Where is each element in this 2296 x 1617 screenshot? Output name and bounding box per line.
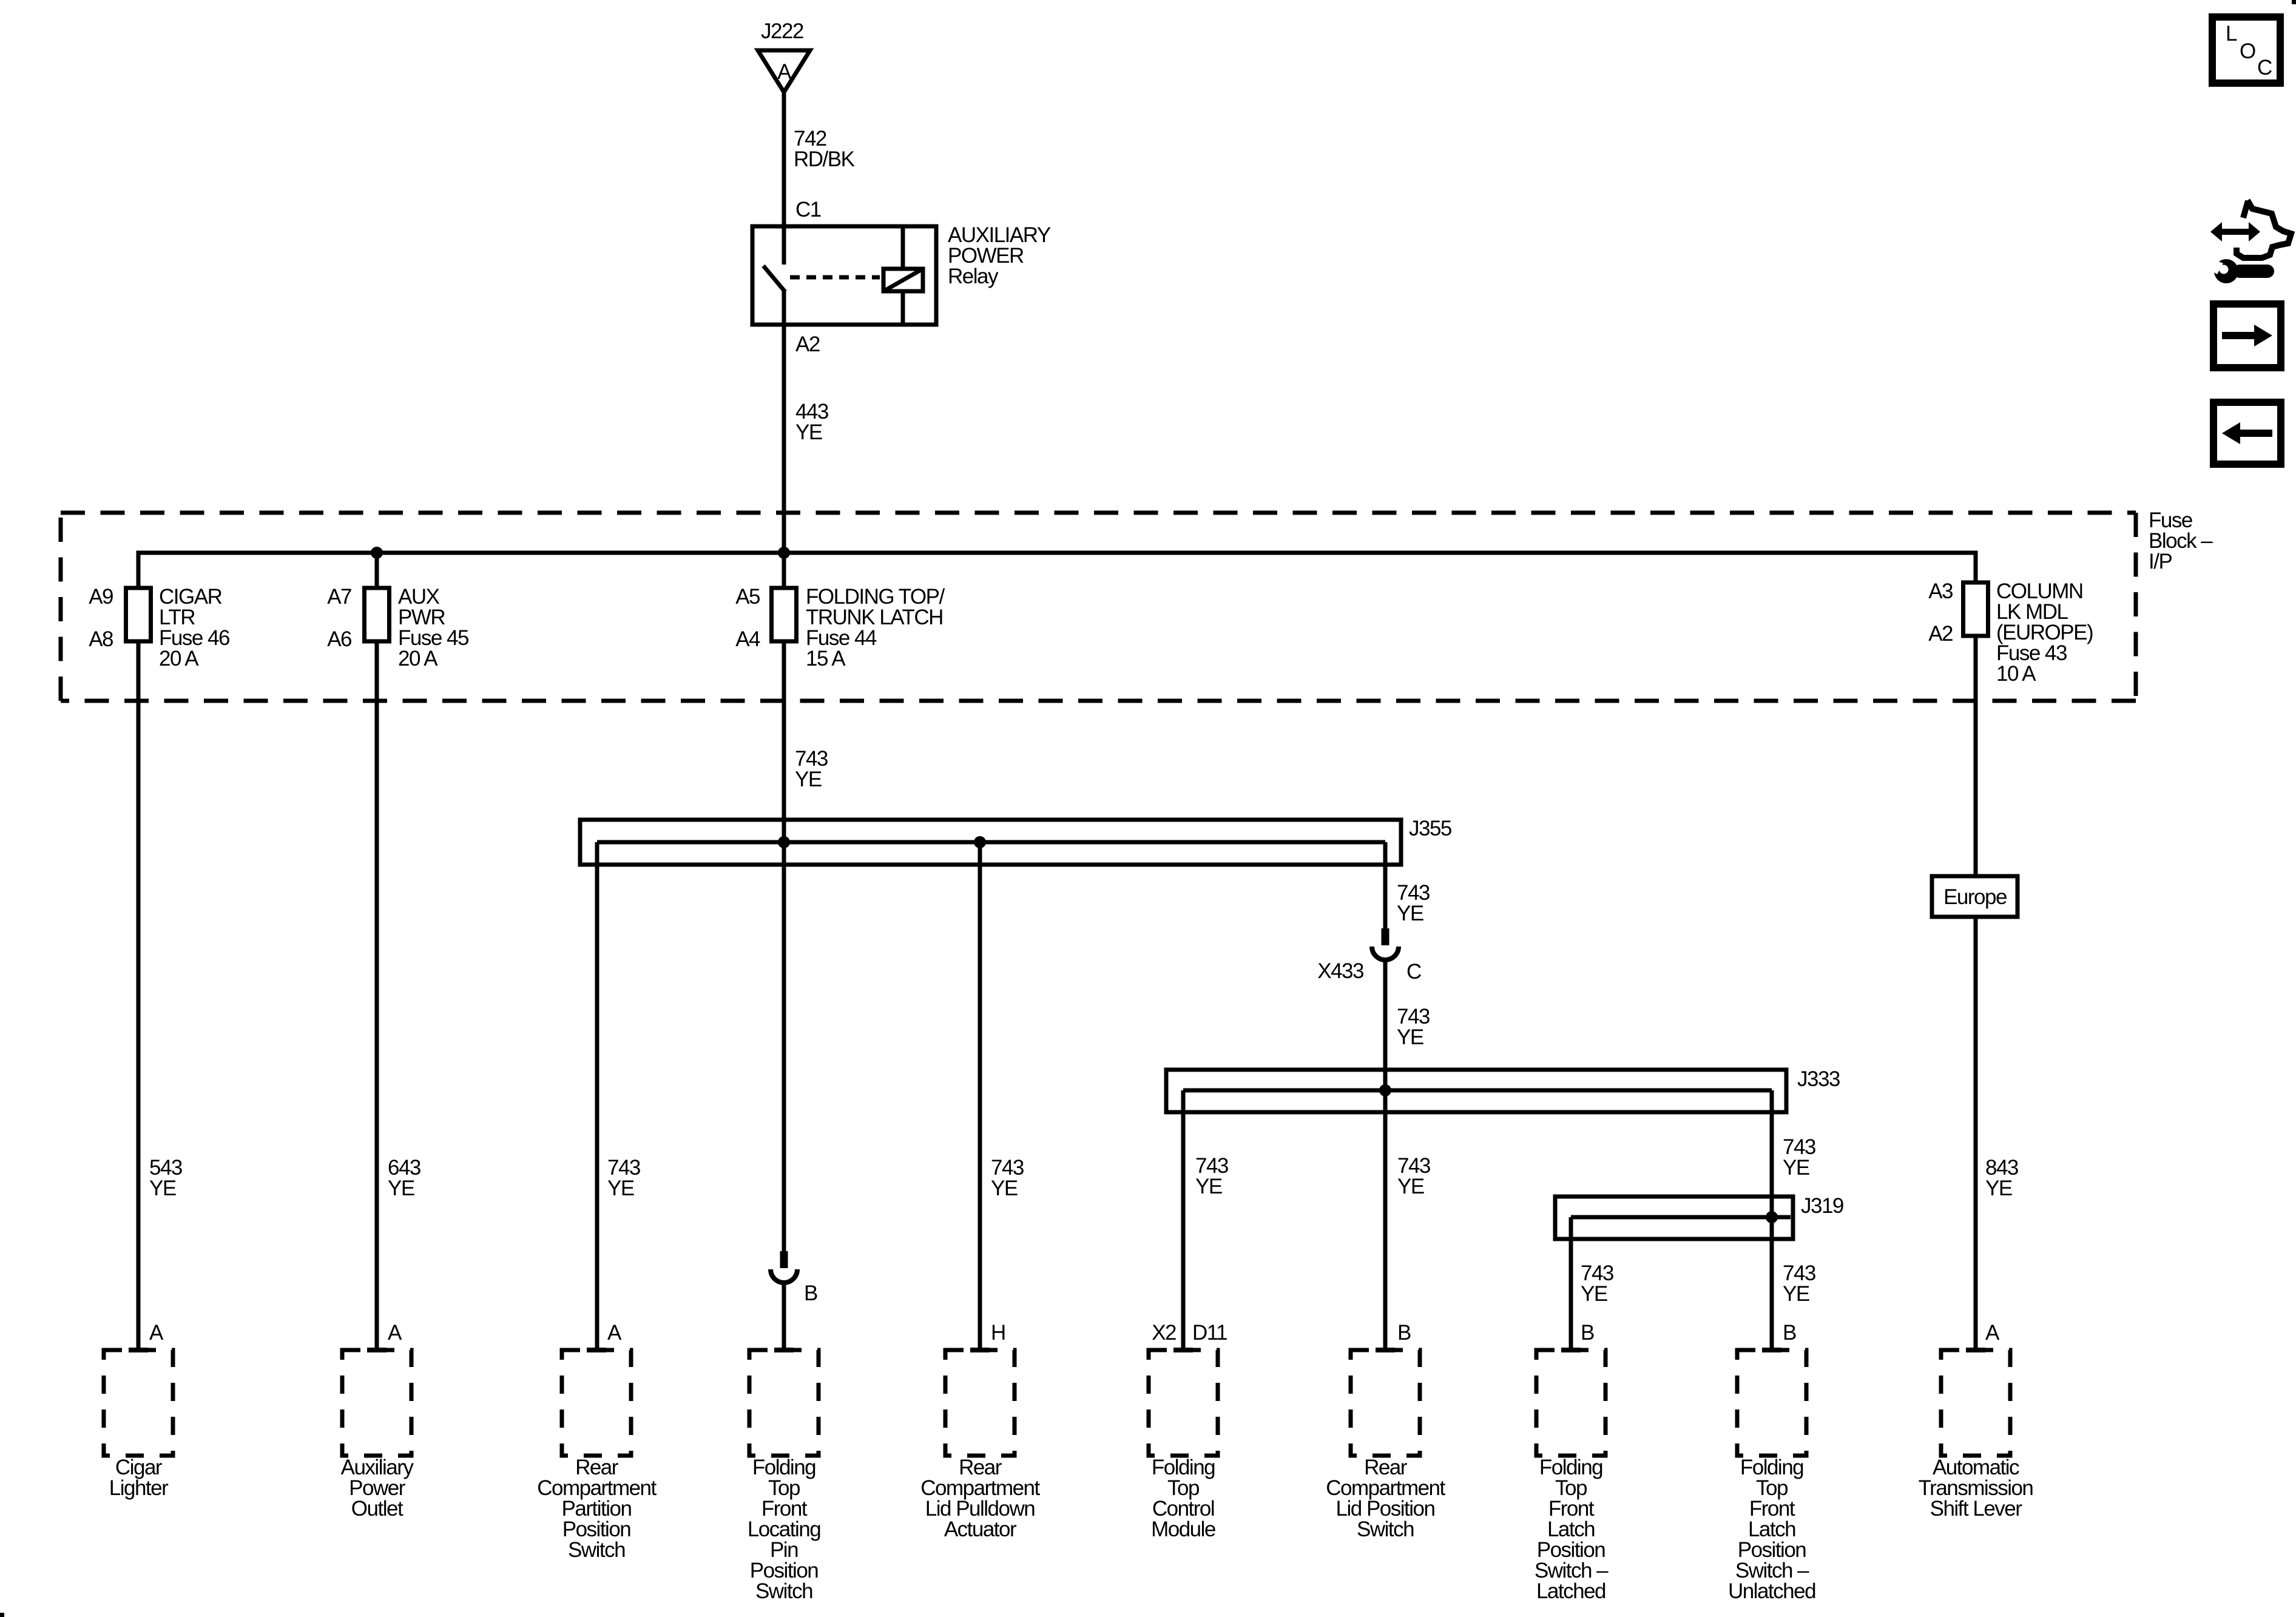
fuse F43 COLUMN LK MDL (EUROPE) 10A [1928, 579, 2093, 686]
svg-text:YE: YE [1397, 1175, 1424, 1198]
svg-text:YE: YE [1783, 1282, 1809, 1306]
svg-text:YE: YE [795, 768, 822, 791]
inline connector pin B on locating pin switch wire [771, 1251, 817, 1350]
junction dot J319 / through wire [1766, 1211, 1778, 1223]
fuse F45 AUX PWR 20A [327, 585, 468, 670]
svg-text:Switch: Switch [1357, 1517, 1414, 1541]
bus wire inside fuse block [138, 553, 1976, 588]
svg-text:Relay: Relay [948, 265, 999, 288]
svg-text:A9: A9 [89, 585, 113, 609]
legend forward arrow box [2213, 304, 2281, 368]
wire 843 YE Europe box to automatic transmission shift lever [1976, 917, 2018, 1350]
junction dot bus / fuse45 [371, 547, 383, 559]
svg-text:Actuator: Actuator [944, 1517, 1017, 1541]
svg-text:B: B [804, 1281, 817, 1305]
wire 742 RD/BK from J222 to relay pin C1 [784, 93, 855, 226]
wire J355 to folding top front locating pin position switch [782, 842, 786, 1251]
wire fuse44 down to splice J355 [782, 553, 786, 842]
connector box Folding Top Front Latch Position Switch Latched [1535, 1348, 1609, 1603]
svg-text:YE: YE [1985, 1176, 2012, 1200]
svg-text:A4: A4 [735, 627, 760, 651]
wire label 743 YE above J355 [795, 747, 828, 791]
corner speck top right [2292, 0, 2296, 4]
svg-text:X2: X2 [1152, 1321, 1176, 1345]
connector box Rear Compartment Lid Pulldown Actuator [920, 1348, 1040, 1541]
svg-text:YE: YE [1397, 902, 1423, 925]
svg-text:J333: J333 [1797, 1067, 1840, 1091]
Europe option box [1932, 876, 2017, 917]
legend tool icon double arrow with outline and wrench [2206, 200, 2291, 283]
svg-text:20 A: 20 A [159, 647, 199, 670]
junction dot J333 / X433 wire [1379, 1084, 1391, 1096]
connector box Auxiliary Power Outlet [341, 1348, 414, 1521]
svg-text:Module: Module [1151, 1517, 1215, 1541]
wire label 643 YE [388, 1156, 420, 1200]
legend LOC box [2212, 17, 2280, 83]
svg-text:D11: D11 [1192, 1321, 1227, 1345]
relay K1 AUXILIARY POWER Relay [752, 223, 1051, 325]
inline connector X433 pin C [1317, 928, 1421, 984]
connector box Cigar Lighter [104, 1348, 173, 1500]
svg-text:C: C [1406, 960, 1421, 984]
svg-text:15 A: 15 A [806, 647, 846, 670]
splice J355 [580, 817, 1451, 865]
wire J333 to folding top control module [1183, 1090, 1228, 1350]
svg-text:B: B [1397, 1321, 1411, 1345]
svg-text:A2: A2 [795, 333, 820, 356]
splice J333 [1166, 1067, 1840, 1112]
junction dot J355 / actuator wire [974, 836, 986, 848]
wire J333 to rear compartment lid position switch [1385, 1090, 1430, 1350]
svg-text:YE: YE [1581, 1282, 1607, 1306]
svg-text:20 A: 20 A [398, 647, 438, 670]
svg-text:Switch: Switch [755, 1579, 812, 1603]
svg-text:Latched: Latched [1536, 1579, 1606, 1603]
svg-text:Europe: Europe [1943, 885, 2007, 909]
wire 743 YE J333 to J319 and on to unlatched switch [1772, 1090, 1815, 1350]
svg-text:C1: C1 [795, 198, 821, 221]
svg-text:J319: J319 [1801, 1194, 1843, 1218]
svg-text:YE: YE [991, 1176, 1018, 1200]
connector box Rear Compartment Lid Position Switch [1326, 1348, 1445, 1541]
wire fuse46 to cigar lighter [137, 588, 141, 1350]
wire fuse45 to auxiliary power outlet [375, 553, 379, 1350]
wire 743 YE J355 to connector X433 [1385, 842, 1430, 928]
splice J319 [1555, 1194, 1843, 1239]
svg-text:J355: J355 [1409, 817, 1451, 840]
wire fuse43 down to Europe box [1974, 582, 1978, 876]
svg-text:YE: YE [1397, 1025, 1423, 1049]
svg-text:A: A [388, 1321, 402, 1345]
svg-text:O: O [2240, 39, 2255, 63]
svg-text:YE: YE [1783, 1156, 1809, 1180]
svg-text:A3: A3 [1928, 579, 1953, 603]
wire 443 YE relay to fuse block [784, 325, 828, 553]
svg-text:YE: YE [388, 1176, 414, 1200]
wire J355 to rear compartment lid pulldown actuator [980, 842, 1024, 1350]
wire label 543 YE [149, 1156, 182, 1200]
corner speck bottom left [0, 1613, 4, 1617]
fuse block I/P dashed boundary [61, 508, 2213, 701]
svg-text:Unlatched: Unlatched [1728, 1579, 1815, 1603]
svg-text:YE: YE [607, 1176, 634, 1200]
connector box Folding Top Front Latch Position Switch Unlatched [1728, 1348, 1815, 1603]
svg-text:L: L [2226, 22, 2237, 46]
svg-text:YE: YE [1195, 1175, 1222, 1198]
junction dot J355 / fuse44 wire [778, 836, 790, 848]
svg-text:A: A [607, 1321, 622, 1345]
connector box Folding Top Front Locating Pin Position Switch [748, 1348, 820, 1603]
connector box Rear Compartment Partition Position Switch [537, 1348, 657, 1562]
wire 743 YE X433 to splice J333 [1385, 960, 1430, 1090]
svg-text:C: C [2257, 56, 2272, 79]
svg-text:A: A [777, 60, 792, 84]
svg-text:X433: X433 [1317, 959, 1363, 983]
svg-text:A2: A2 [1928, 622, 1953, 646]
svg-text:A6: A6 [327, 627, 351, 651]
wire J319 to folding top front latch position switch latched [1571, 1217, 1613, 1350]
svg-text:Shift Lever: Shift Lever [1930, 1497, 2023, 1521]
fuse F46 CIGAR LTR 20A [89, 585, 229, 670]
svg-text:I/P: I/P [2149, 550, 2172, 573]
connector box Automatic Transmission Shift Lever [1919, 1348, 2033, 1521]
svg-text:RD/BK: RD/BK [794, 147, 855, 171]
svg-text:YE: YE [149, 1176, 176, 1200]
svg-text:B: B [1783, 1321, 1796, 1345]
connector box Folding Top Control Module [1149, 1348, 1218, 1541]
svg-text:A: A [1985, 1321, 2000, 1345]
wire label 743 YE below J319 right [1783, 1261, 1815, 1306]
wire J355 to rear compartment partition position switch [597, 842, 640, 1350]
svg-text:Switch: Switch [568, 1538, 625, 1562]
junction dot bus / fuse44 [778, 547, 790, 559]
pins X2 D11 folding top control module [1152, 1321, 1227, 1345]
svg-text:10 A: 10 A [1996, 662, 2036, 686]
fuse F44 FOLDING TOP/TRUNK LATCH 15A [735, 585, 945, 670]
svg-text:A: A [149, 1321, 164, 1345]
svg-text:A7: A7 [327, 585, 351, 609]
node J222 power feed triangle [758, 19, 810, 92]
svg-text:B: B [1581, 1321, 1594, 1345]
svg-text:A5: A5 [735, 585, 760, 609]
svg-text:Outlet: Outlet [351, 1497, 403, 1521]
svg-text:H: H [991, 1321, 1005, 1345]
legend backward arrow box [2213, 402, 2281, 464]
svg-text:A8: A8 [89, 627, 113, 651]
svg-text:Lighter: Lighter [109, 1476, 169, 1500]
svg-text:YE: YE [795, 420, 822, 444]
svg-text:J222: J222 [761, 19, 803, 43]
